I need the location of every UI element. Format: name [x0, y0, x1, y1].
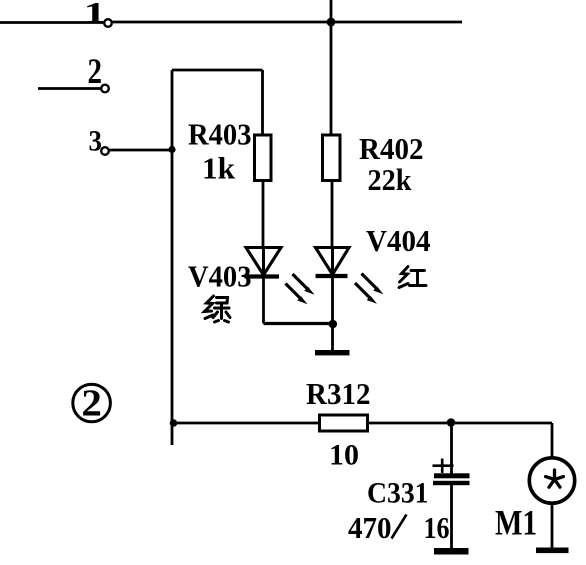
LED V403 arrows	[286, 274, 315, 304]
junction dot pin3 / left bus	[168, 146, 175, 153]
wire C331 bottom lead	[450, 485, 453, 550]
svg-text:16: 16	[424, 510, 450, 545]
junction dot bottom rail / left bus	[170, 419, 178, 427]
junction dot top rail / bus	[327, 18, 336, 27]
wire C331 top lead	[450, 423, 453, 474]
label red hanzi	[399, 267, 426, 288]
wire pin 2 lead	[38, 87, 101, 90]
capacitor C331	[433, 473, 470, 485]
slash of 470/16	[392, 515, 407, 539]
resistor R403	[255, 135, 272, 181]
wire bottom rail right	[368, 422, 553, 425]
svg-text:10: 10	[329, 439, 359, 472]
wire R402 bottom lead	[331, 181, 334, 249]
svg-text:R403: R403	[188, 116, 252, 151]
svg-text:C331: C331	[367, 477, 429, 510]
wire bottom rail left	[172, 422, 320, 425]
ground under V404	[315, 350, 350, 355]
ground under M1	[536, 548, 569, 554]
svg-text:1: 1	[84, 0, 107, 30]
LED V403 diode	[245, 248, 282, 277]
terminal circle pin 1	[104, 19, 112, 27]
svg-text:22k: 22k	[368, 162, 413, 197]
svg-text:R312: R312	[306, 376, 371, 411]
svg-text:3: 3	[89, 125, 103, 158]
terminal circle pin 3	[101, 147, 109, 155]
wire left bus vertical	[171, 70, 174, 445]
polarity plus of C331	[433, 459, 454, 474]
wire V403 cathode lead	[262, 277, 265, 324]
junction dot capacitor node	[447, 418, 456, 427]
wire R403 top lead	[261, 70, 264, 136]
wire pin 3 lead	[110, 149, 173, 152]
svg-text:M1: M1	[495, 503, 537, 543]
motor M1	[529, 458, 574, 503]
LED V404 diode	[316, 248, 350, 277]
wire V404 cathode lead	[331, 276, 334, 350]
wire M1 top lead	[551, 423, 554, 457]
svg-text:V404: V404	[366, 223, 431, 258]
resistor R402	[323, 135, 341, 181]
svg-text:470: 470	[348, 510, 392, 545]
wire branch top horizontal	[172, 69, 263, 72]
wire R402 bus vertical	[330, 0, 333, 136]
ground under C331	[434, 548, 469, 555]
svg-text:2: 2	[81, 382, 102, 424]
junction dot cathode join	[329, 320, 338, 329]
LED V404 arrows	[355, 274, 384, 304]
svg-text:V403: V403	[188, 258, 252, 293]
wire M1 bottom lead	[551, 503, 554, 549]
terminal circle pin 2	[101, 85, 109, 93]
wire top rail left segment	[0, 21, 103, 24]
wire top rail right segment	[113, 21, 463, 24]
wire cathode join horizontal	[264, 322, 334, 325]
svg-text:1k: 1k	[202, 150, 236, 185]
svg-text:2: 2	[88, 51, 103, 91]
wire R403 bottom lead	[262, 181, 265, 249]
symbol circled 2	[73, 384, 111, 422]
resistor R312	[320, 415, 368, 431]
label green hanzi	[205, 296, 231, 322]
